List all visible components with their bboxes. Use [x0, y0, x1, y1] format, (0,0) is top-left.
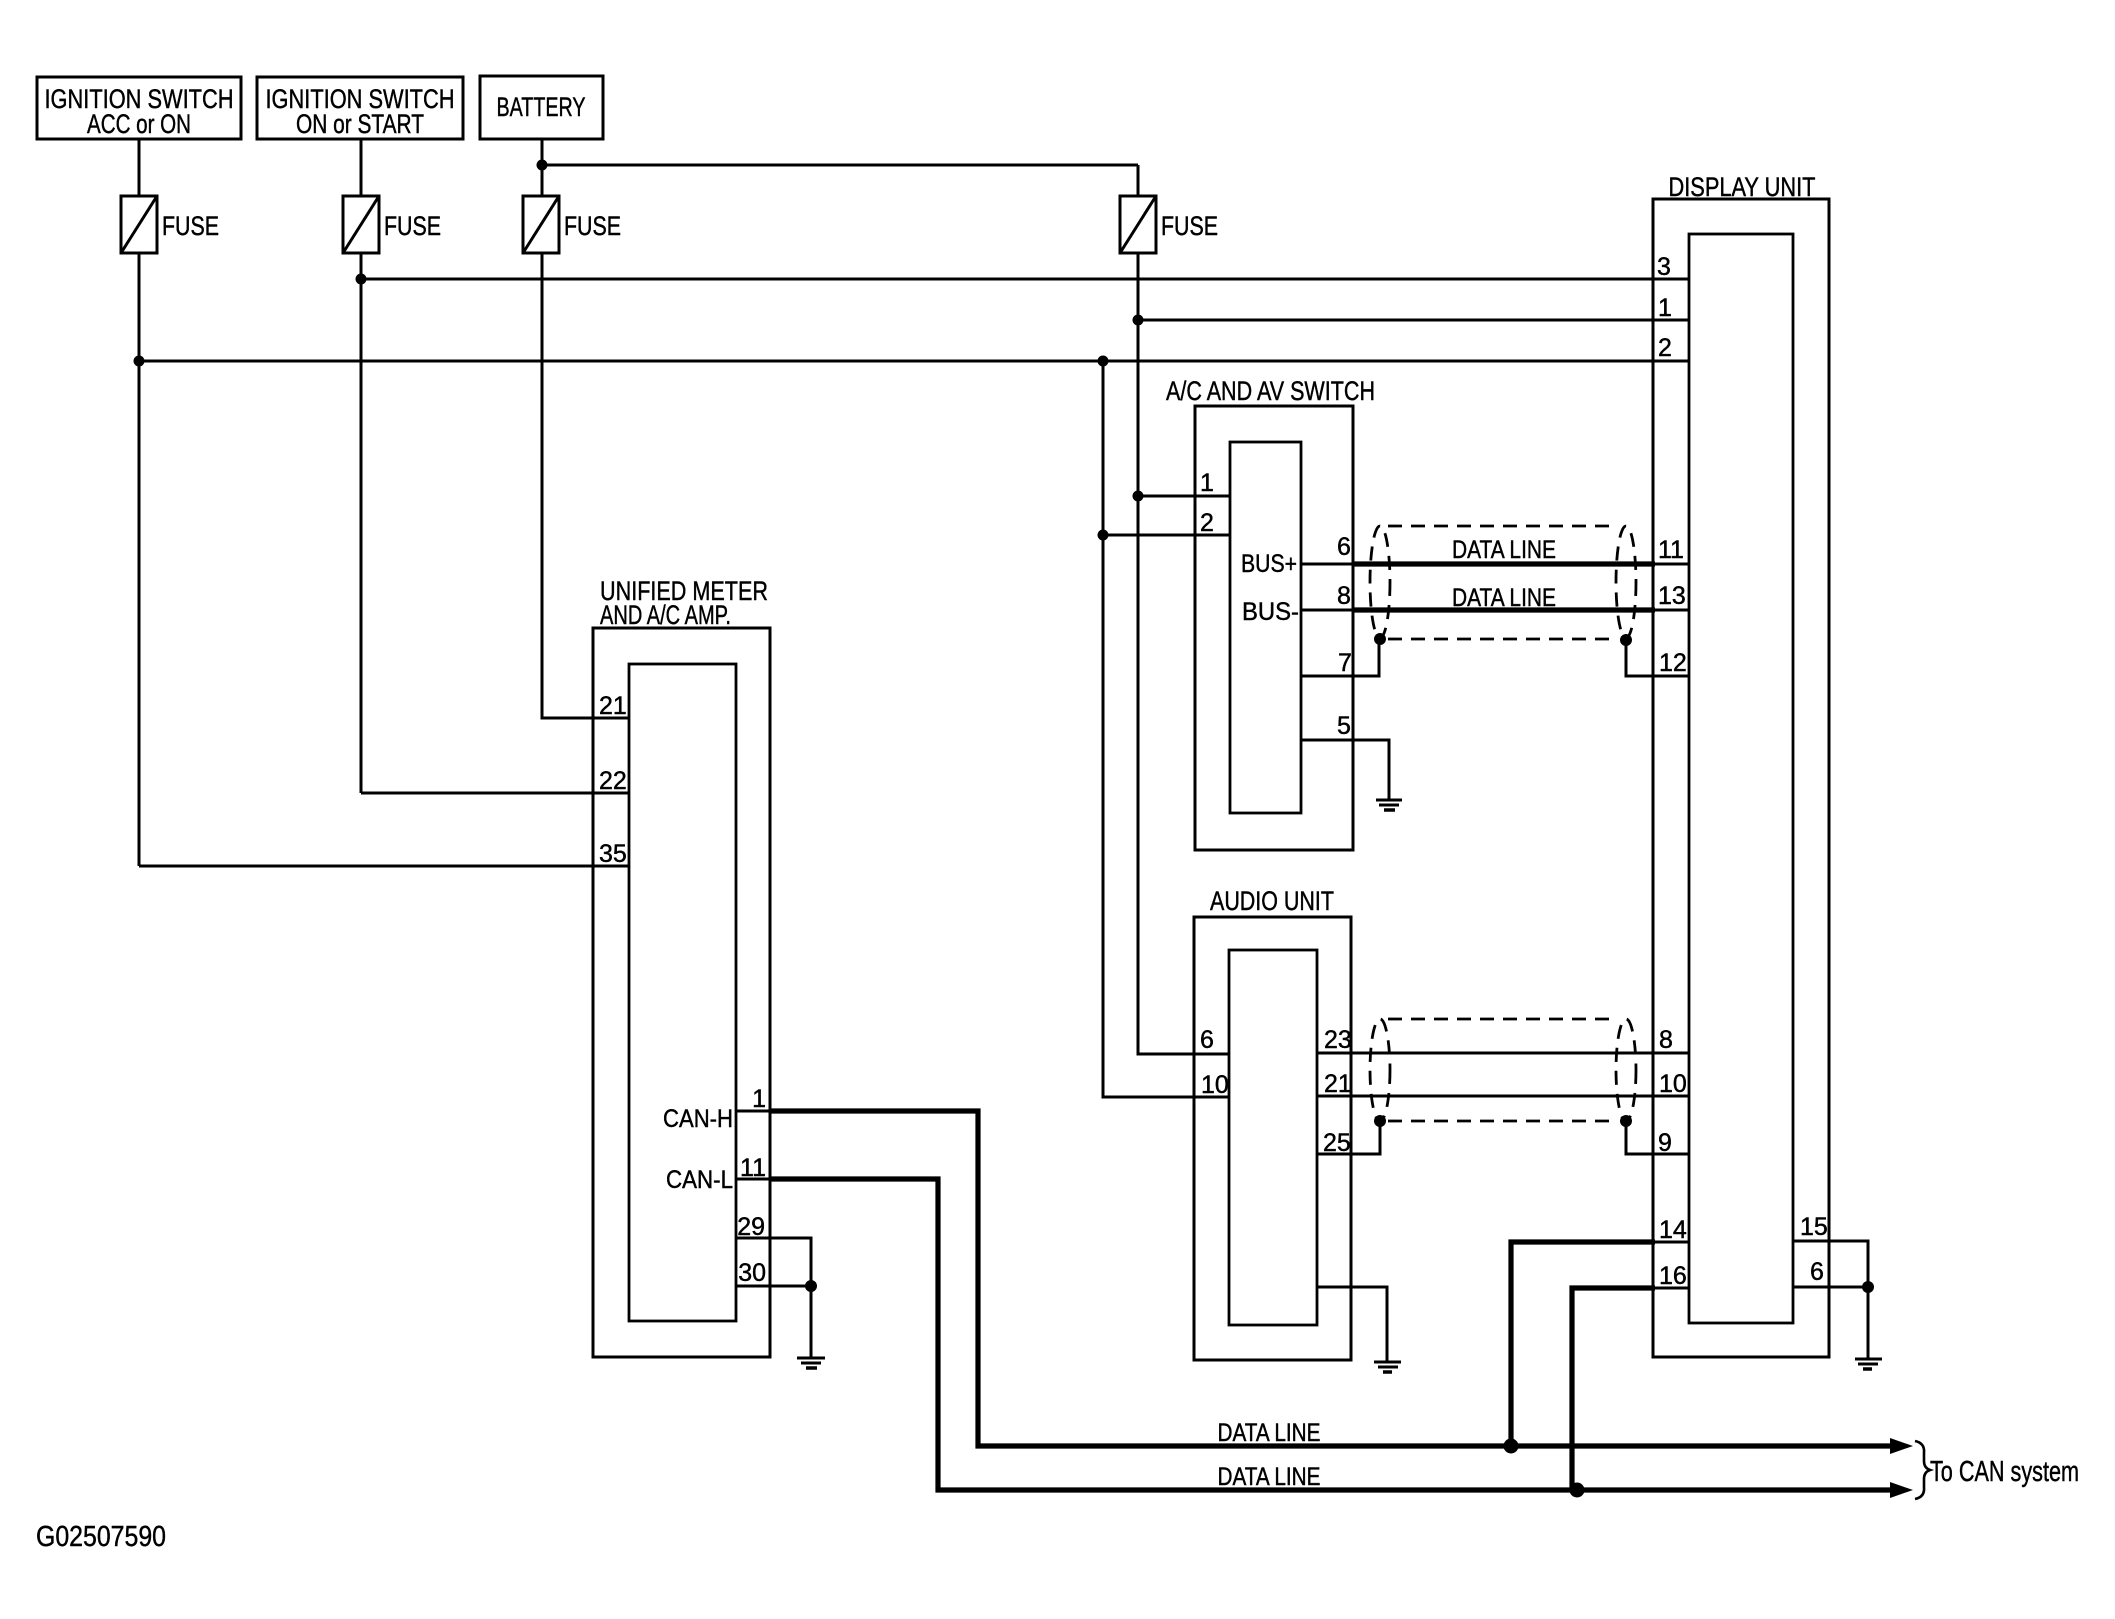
wire audio pin 21 to display pin 10 [1317, 1095, 1689, 1098]
pin 6 stub BUS+ [1301, 563, 1356, 566]
junction node CAN-H data line [1504, 1439, 1519, 1454]
wire pin 5 to ground [1301, 740, 1389, 799]
svg-text:21: 21 [599, 692, 627, 720]
wire battery net: F4 output vertical down to audio pin 6 [1138, 253, 1230, 1054]
wire IGN net: F2 output to display pin 3 [361, 278, 1689, 281]
A/C and AV switch inner connector box [1230, 442, 1301, 813]
wire pin 6 (right) to ground node [1793, 1286, 1868, 1289]
wire ACC net branch vertical down to audio pin 10 [1103, 361, 1230, 1097]
wire pin 7 to shield drain [1301, 639, 1379, 676]
source box BATTERY [480, 76, 603, 139]
display pin 13 stub [1653, 609, 1689, 612]
svg-text:10: 10 [1659, 1070, 1687, 1098]
junction node battery/F4 [537, 160, 548, 171]
wire ACC net: to display pin 2 [139, 360, 1689, 363]
wire ACC feed: box1 to fuse F1 [138, 139, 141, 196]
wire battery feed: box3 to fuse F3 [541, 139, 544, 196]
unified meter inner connector box [629, 664, 736, 1321]
junction node ACC net at pin2 line branch [1098, 356, 1109, 367]
fuse F3 [523, 196, 621, 253]
fuse F1 [121, 196, 219, 253]
CAN-H thick wire from unified meter pin 1 to CAN data line [771, 1111, 1901, 1446]
svg-text:15: 15 [1800, 1213, 1828, 1241]
display pin 14 thick wire to CAN data line [1511, 1242, 1655, 1446]
CAN-L thick wire from unified meter pin 11 to CAN data line [771, 1179, 1901, 1490]
svg-text:23: 23 [1324, 1026, 1352, 1054]
svg-text:BUS+: BUS+ [1241, 550, 1297, 578]
junction node shield1 right [1620, 634, 1632, 646]
svg-text:5: 5 [1337, 712, 1351, 740]
pin 1 stub CAN-H [736, 1110, 771, 1113]
source box IGNITION SWITCH ON or START [257, 77, 463, 139]
wire pin 29 to ground node [736, 1238, 811, 1357]
display pin 14 stub [1653, 1241, 1689, 1244]
data line BUS+ thick wire to display pin 11 [1353, 561, 1655, 566]
wire IGN net horizontal to unified meter pin 22 [361, 792, 630, 795]
svg-text:1: 1 [752, 1085, 766, 1113]
svg-text:CAN-L: CAN-L [666, 1166, 733, 1194]
wire battery branch down into fuse F4 [1137, 165, 1140, 196]
display pin 16 stub [1653, 1287, 1689, 1290]
arrowhead CAN-H to CAN system [1890, 1438, 1913, 1454]
svg-text:14: 14 [1659, 1216, 1687, 1244]
svg-text:2: 2 [1200, 509, 1214, 537]
wire IGN net vertical from F2 down to pin22 branch [360, 253, 363, 793]
audio unit inner connector box [1229, 950, 1317, 1325]
junction node CAN-L data line [1570, 1483, 1585, 1498]
ground symbol under audio unit [1374, 1362, 1401, 1372]
svg-text:6: 6 [1337, 533, 1351, 561]
svg-text:2: 2 [1658, 334, 1672, 362]
svg-text:AND A/C AMP.: AND A/C AMP. [600, 600, 731, 630]
wire audio case to ground [1317, 1287, 1387, 1361]
svg-text:3: 3 [1657, 253, 1671, 281]
display pin 11 stub [1653, 563, 1689, 566]
wire pin 30 to ground node [736, 1285, 811, 1288]
unified meter and A/C amp outer box [593, 576, 770, 1357]
svg-text:DISPLAY UNIT: DISPLAY UNIT [1669, 172, 1816, 202]
wire audio pin 23 to display pin 8 [1317, 1052, 1689, 1055]
svg-text:21: 21 [1324, 1070, 1352, 1098]
svg-text:BATTERY: BATTERY [497, 92, 586, 122]
wire pin 15 to right vertical [1793, 1241, 1868, 1358]
svg-text:11: 11 [1658, 536, 1684, 564]
fuse F4 [1120, 196, 1218, 253]
junction node IGN net at pin3 line [356, 274, 367, 285]
svg-text:16: 16 [1659, 1262, 1687, 1290]
junction node shield2 right [1620, 1115, 1632, 1127]
wire battery net: F3 down to unified meter pin 21 [542, 253, 630, 718]
data line BUS- thick wire to display pin 13 [1353, 607, 1655, 612]
svg-text:12: 12 [1659, 649, 1687, 677]
svg-text:30: 30 [738, 1259, 766, 1287]
wire ACC branch to A/C switch pin 2 [1103, 534, 1230, 537]
display unit inner connector box [1689, 234, 1793, 1323]
svg-text:35: 35 [599, 840, 627, 868]
junction node unified meter ground [805, 1280, 817, 1292]
ground symbol under unified meter [797, 1358, 825, 1368]
pin 11 stub CAN-L [736, 1178, 771, 1181]
junction node battery net at A/C pin1 [1133, 491, 1144, 502]
svg-text:10: 10 [1201, 1071, 1229, 1099]
pin 8 stub BUS- [1301, 609, 1356, 612]
svg-text:To CAN system: To CAN system [1930, 1456, 2079, 1488]
audio unit outer box [1194, 886, 1351, 1360]
shielded cable symbol (lower data line pair) [1370, 1019, 1636, 1121]
svg-text:13: 13 [1658, 582, 1686, 610]
svg-text:7: 7 [1338, 649, 1352, 677]
svg-text:ACC or ON: ACC or ON [87, 109, 191, 139]
junction node ACC net at pin2 line [134, 356, 145, 367]
wire battery net horizontal to fuse F4 [542, 164, 1138, 167]
source box IGNITION SWITCH ACC or ON [37, 77, 241, 139]
ground symbol under A/C switch pin 5 [1376, 800, 1402, 810]
junction node display ground [1862, 1281, 1874, 1293]
shielded cable symbol (upper data line pair) [1370, 526, 1636, 639]
A/C and AV switch outer box [1166, 376, 1375, 850]
wire battery net: to display pin 1 [1138, 319, 1689, 322]
svg-text:FUSE: FUSE [564, 211, 621, 241]
svg-text:BUS-: BUS- [1242, 598, 1299, 626]
svg-text:6: 6 [1200, 1026, 1214, 1054]
display unit outer box [1653, 172, 1829, 1357]
svg-text:1: 1 [1200, 469, 1214, 497]
arrowhead CAN-L to CAN system [1890, 1482, 1913, 1498]
svg-text:1: 1 [1658, 294, 1672, 322]
display pin 16 thick wire to CAN data line [1572, 1288, 1655, 1490]
wire shield drain to display pin 9 [1626, 1121, 1689, 1154]
junction node battery net at pin1 line [1133, 315, 1144, 326]
wire ACC net vertical from F1 down to pin35 branch [138, 253, 141, 866]
wire ACC net horizontal to unified meter pin 35 [139, 865, 630, 868]
svg-text:6: 6 [1810, 1258, 1824, 1286]
wire battery branch to A/C switch pin 1 [1138, 495, 1230, 498]
wire pin 25 to shield drain [1317, 1121, 1380, 1154]
svg-text:CAN-H: CAN-H [663, 1105, 733, 1133]
wire shield drain to display pin 12 [1626, 640, 1689, 676]
fuse F2 [343, 196, 441, 253]
svg-text:FUSE: FUSE [384, 211, 441, 241]
svg-text:DATA LINE: DATA LINE [1452, 584, 1556, 612]
svg-text:A/C AND AV SWITCH: A/C AND AV SWITCH [1166, 376, 1375, 406]
junction node shield1 left [1374, 633, 1386, 645]
svg-text:22: 22 [599, 767, 627, 795]
svg-text:AUDIO UNIT: AUDIO UNIT [1210, 886, 1334, 916]
junction node ACC net at A/C pin2 [1098, 530, 1109, 541]
svg-text:8: 8 [1659, 1026, 1673, 1054]
svg-text:G02507590: G02507590 [36, 1521, 166, 1553]
svg-text:DATA LINE: DATA LINE [1218, 1419, 1321, 1447]
ground symbol under display unit [1855, 1359, 1882, 1369]
svg-text:FUSE: FUSE [1161, 211, 1218, 241]
junction node shield2 left [1374, 1115, 1386, 1127]
svg-text:FUSE: FUSE [162, 211, 219, 241]
svg-text:9: 9 [1658, 1129, 1672, 1157]
brace for CAN system [1915, 1441, 1930, 1499]
svg-text:8: 8 [1337, 582, 1351, 610]
svg-text:DATA LINE: DATA LINE [1452, 536, 1556, 564]
svg-text:ON or START: ON or START [296, 109, 424, 139]
wire IGN feed: box2 to fuse F2 [360, 139, 363, 196]
svg-text:DATA LINE: DATA LINE [1218, 1463, 1321, 1491]
